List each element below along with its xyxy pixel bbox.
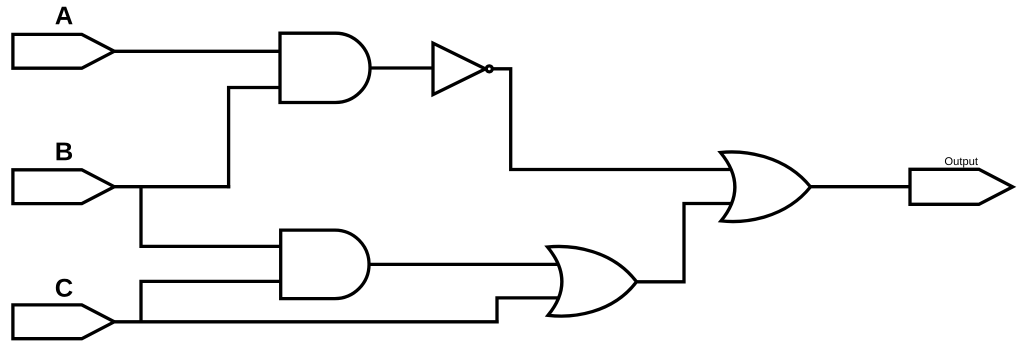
wire OR2 output to output tag — [808, 185, 912, 188]
inverter U3 bubble — [486, 66, 492, 72]
input tag C — [13, 305, 114, 339]
AND gate U1 (A AND B) — [280, 33, 370, 102]
wire AND2 output to OR1 input 1 — [365, 263, 560, 266]
wire AND1 output to NOT input — [366, 66, 433, 69]
wire C up to OR1 input 2 — [497, 298, 560, 322]
OR gate U4 (AND2 OR C) — [548, 246, 637, 316]
AND gate U2 (B AND C) — [281, 230, 369, 299]
wire C up to AND2 input 2 — [141, 281, 284, 321]
label B — [57, 143, 73, 161]
wire NOT bubble to OR2 input 1 — [493, 69, 735, 170]
wire B up to AND1 input 2 — [229, 88, 284, 187]
wire B down to AND2 input 1 — [141, 187, 284, 247]
output tag — [910, 169, 1013, 204]
inverter U3 triangle — [433, 43, 485, 95]
label C — [56, 279, 73, 297]
label Output — [945, 157, 978, 167]
wire B tag horizontal — [113, 185, 229, 188]
input tag A — [13, 34, 114, 68]
wire OR1 output to OR2 input 2 — [634, 204, 735, 282]
OR gate U5 (final OR) — [721, 152, 811, 222]
wire C tag horizontal — [113, 320, 497, 323]
label A — [55, 7, 72, 25]
wire A tag to AND1 input 1 — [113, 50, 284, 53]
input tag B — [13, 170, 114, 204]
